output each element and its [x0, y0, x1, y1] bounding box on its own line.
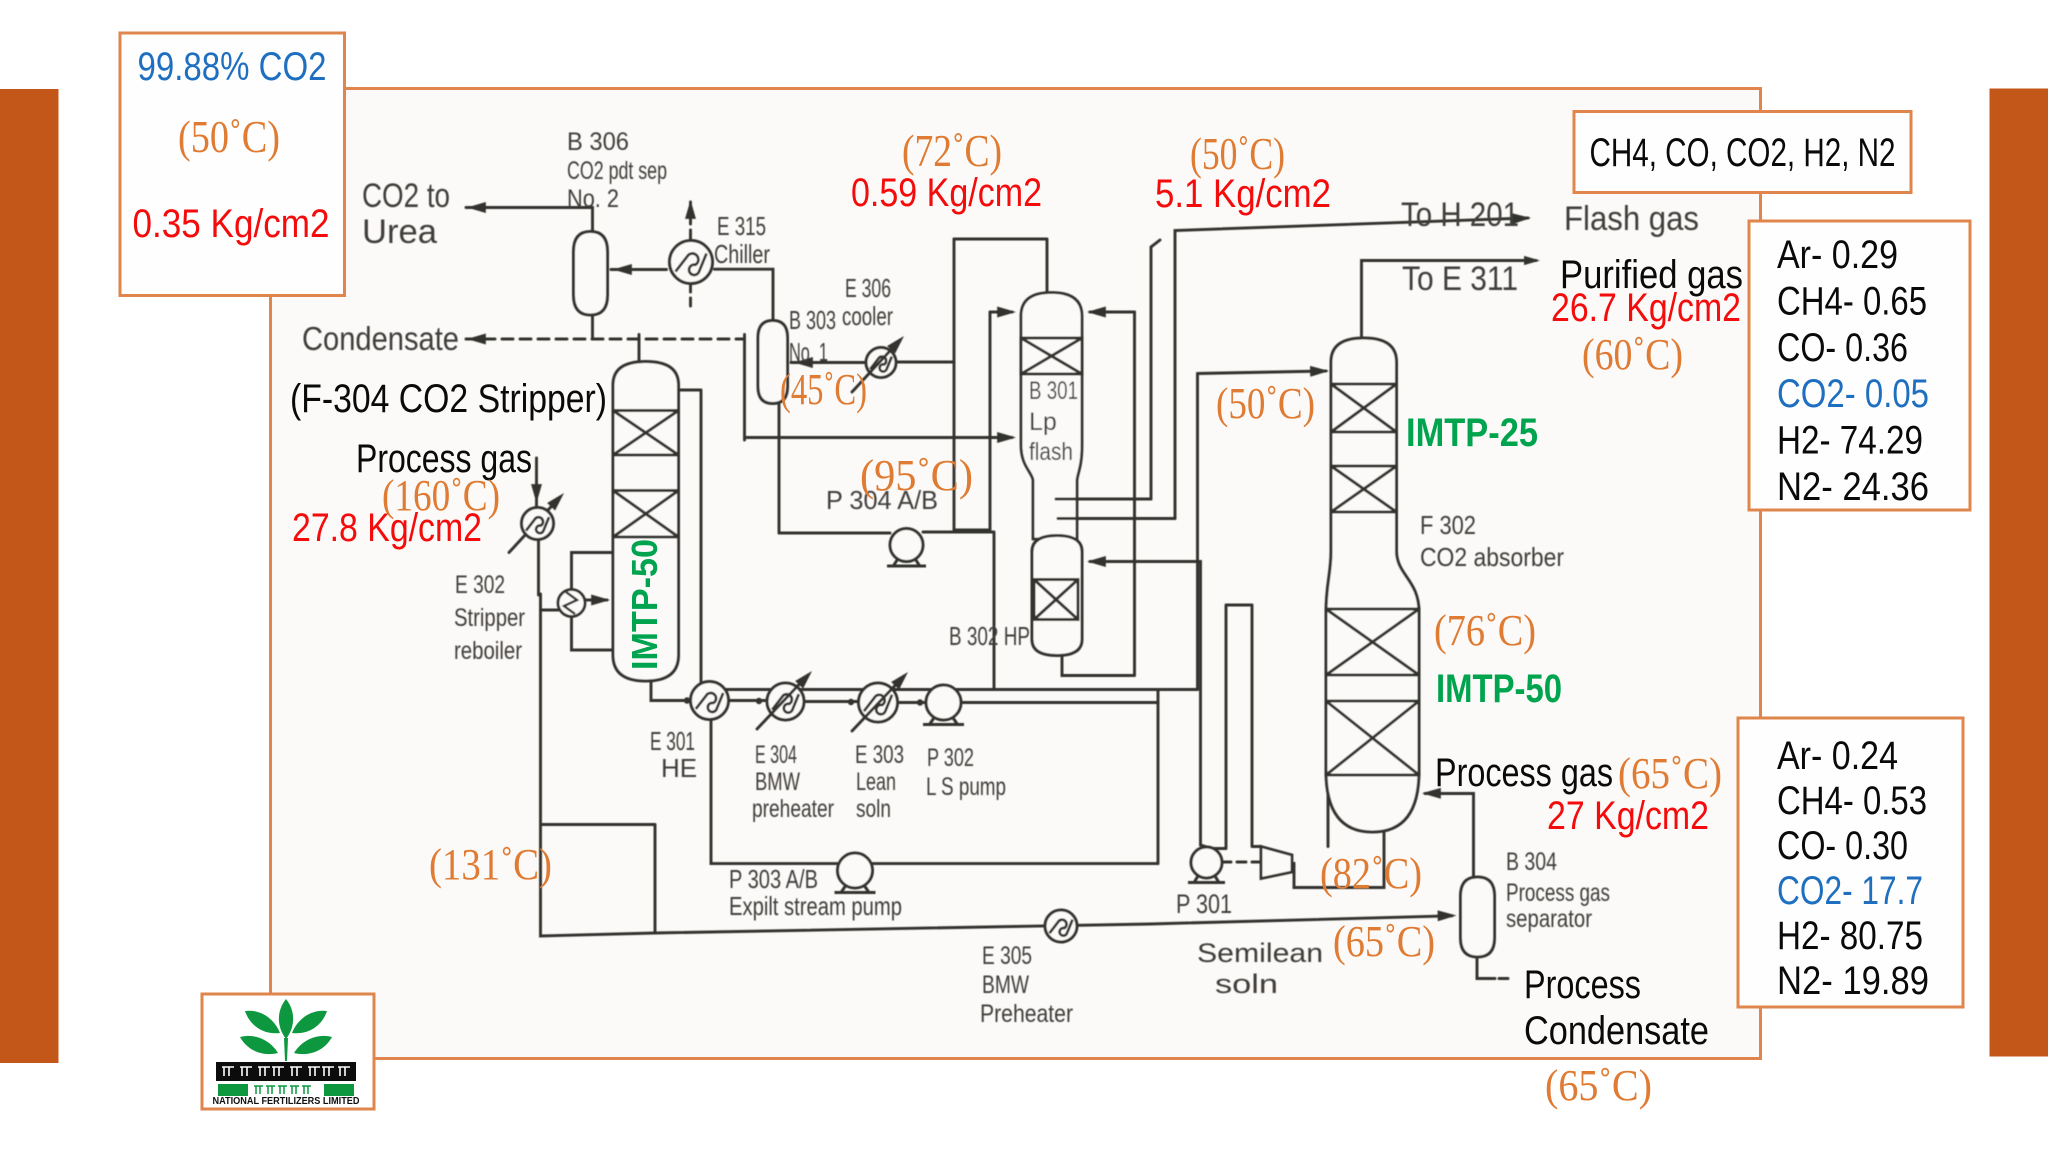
svg-text:No. 2: No. 2 [567, 185, 619, 213]
wire bottom link x990 [954, 312, 990, 530]
vessel B301 Lp flash with neck [1021, 293, 1082, 540]
wire semilean header y689 [701, 688, 1198, 691]
pump P301 semilean [1191, 847, 1222, 878]
svg-text:CO2- 17.7: CO2- 17.7 [1777, 869, 1923, 913]
svg-text:E 302: E 302 [455, 571, 505, 599]
wire into B301 top right [1090, 311, 1135, 314]
wire E315 bottom stub [689, 284, 692, 311]
heat exchanger E306 cooler [866, 348, 896, 378]
packing B301 [1021, 338, 1082, 374]
svg-text:preheater: preheater [752, 795, 834, 823]
wire CO2 to urea line [466, 208, 593, 232]
wire eductor outlet to absorber bottom [1292, 830, 1384, 888]
logo box National Fertilizers Limited [202, 994, 374, 1109]
junction dots [684, 697, 923, 705]
svg-text:E 301: E 301 [650, 726, 695, 756]
packing absorber n1 [1331, 384, 1397, 432]
svg-text:E 304: E 304 [755, 741, 797, 769]
svg-text:B 304: B 304 [1506, 848, 1557, 876]
svg-text:soln: soln [1215, 969, 1278, 999]
wire E302 bottom loop [572, 617, 614, 651]
wire E301 to E304 [729, 699, 767, 702]
svg-text:To E 311: To E 311 [1402, 260, 1518, 298]
wire 131C L-link [541, 825, 655, 934]
wire absorber overhead [1362, 261, 1537, 339]
heat exchanger E304 BMW preheater [767, 683, 804, 720]
svg-text:reboiler: reboiler [454, 637, 522, 665]
packing absorber w1 [1326, 609, 1419, 675]
svg-text:B 303: B 303 [789, 305, 836, 335]
svg-text:CO- 0.30: CO- 0.30 [1777, 824, 1908, 868]
box CH4 list [1574, 112, 1911, 193]
logo leaves [240, 999, 332, 1061]
svg-text:(60˚C): (60˚C) [1582, 330, 1683, 379]
svg-text:N2- 19.89: N2- 19.89 [1777, 959, 1929, 1003]
svg-text:Flash gas: Flash gas [1564, 200, 1699, 238]
wire process gas feed [535, 458, 538, 506]
svg-text:(95˚C): (95˚C) [860, 451, 973, 500]
wire E302 vapor return [585, 599, 607, 602]
eductor funnel [1261, 847, 1292, 879]
svg-text:CO2- 0.05: CO2- 0.05 [1777, 372, 1929, 416]
heat exchanger feed preheat [522, 508, 554, 540]
svg-text:H2- 74.29: H2- 74.29 [1777, 419, 1923, 463]
svg-text:cooler: cooler [842, 301, 893, 331]
wire P301 suction tee [1157, 690, 1160, 863]
wire condensate dashed line [466, 338, 745, 341]
wire flash gas risers [1151, 218, 1528, 519]
vessel B302 HP [1032, 536, 1082, 656]
wire feed HX diagonal [509, 497, 560, 553]
logo green marks row [218, 1084, 248, 1096]
svg-text:Urea: Urea [362, 213, 437, 251]
svg-text:Lean: Lean [856, 768, 896, 796]
svg-text:CO2 to: CO2 to [362, 177, 450, 215]
svg-text:CH4- 0.53: CH4- 0.53 [1777, 779, 1927, 823]
wire B302 bottoms U-loop [1062, 312, 1135, 676]
svg-text:B 301: B 301 [1029, 377, 1078, 405]
wire P304 suction [779, 532, 890, 535]
wire E315 to B303 top [715, 269, 774, 320]
svg-text:Stripper: Stripper [454, 604, 525, 632]
wire E315 to B306 [611, 268, 667, 271]
svg-text:Chiller: Chiller [714, 239, 770, 269]
wire E302 upper loop [572, 553, 614, 590]
wire riser x744 [743, 335, 746, 441]
packing stripper upper [613, 411, 679, 456]
wire E304 diagonal [757, 675, 808, 729]
svg-text:NATIONAL FERTILIZERS LIMITED: NATIONAL FERTILIZERS LIMITED [213, 1095, 360, 1107]
vessel B304 process gas separator [1461, 877, 1495, 957]
svg-text:B 306: B 306 [567, 128, 629, 156]
svg-text:B 302 HP: B 302 HP [949, 621, 1030, 651]
svg-text:(50˚C): (50˚C) [1216, 379, 1315, 428]
wire B302 side feed from downcomer [1090, 562, 1207, 848]
main frame border [271, 89, 1761, 1059]
packing absorber n2 [1331, 466, 1397, 512]
svg-text:CO- 0.36: CO- 0.36 [1777, 326, 1908, 370]
svg-text:(50˚C): (50˚C) [178, 111, 280, 162]
vessel B303 No.1 [758, 321, 788, 404]
scan paper background [272, 90, 1759, 1057]
svg-text:(76˚C): (76˚C) [1434, 606, 1536, 655]
wire 50C line into absorber [1198, 371, 1327, 374]
svg-text:Ar- 0.24: Ar- 0.24 [1777, 734, 1898, 778]
packing B302 [1034, 580, 1078, 620]
svg-text:CH4, CO, CO2, H2, N2: CH4, CO, CO2, H2, N2 [1590, 131, 1896, 175]
svg-text:CH4- 0.65: CH4- 0.65 [1777, 279, 1927, 323]
svg-text:Preheater: Preheater [980, 1000, 1073, 1028]
svg-text:N2- 24.36: N2- 24.36 [1777, 465, 1929, 509]
svg-text:separator: separator [1506, 905, 1592, 933]
wire B306 condensate drop [591, 315, 594, 339]
wire E302 left stub [541, 609, 559, 612]
wire B301 flash outlets [1056, 499, 1175, 519]
wire P303 discharge [873, 862, 1159, 865]
svg-text:CO2 pdt sep: CO2 pdt sep [567, 157, 667, 185]
svg-text:E 315: E 315 [717, 211, 766, 241]
svg-text:0.59 Kg/cm2: 0.59 Kg/cm2 [851, 171, 1042, 215]
packing stripper lower [613, 491, 679, 538]
heat exchanger E301 HE [691, 682, 729, 720]
wire B303 bottoms [778, 404, 781, 534]
svg-text:(72˚C): (72˚C) [902, 125, 1002, 176]
svg-text:(F-304 CO2 Stripper): (F-304 CO2 Stripper) [290, 377, 607, 421]
svg-text:(65˚C): (65˚C) [1618, 749, 1722, 798]
svg-text:Ar- 0.29: Ar- 0.29 [1777, 233, 1898, 277]
box purified gas composition [1749, 221, 1970, 510]
wire E301 to P303 [711, 720, 837, 864]
svg-text:Process gas: Process gas [1435, 751, 1613, 795]
wire B304 bottoms [1477, 957, 1508, 979]
svg-text:(45˚C): (45˚C) [780, 365, 867, 414]
heat exchanger E302 reboiler [558, 590, 585, 617]
wire stripper overhead [638, 335, 641, 362]
svg-text:Lp: Lp [1029, 408, 1057, 436]
svg-text:Condensate: Condensate [1524, 1009, 1709, 1053]
svg-text:Expilt stream pump: Expilt stream pump [729, 891, 902, 921]
wire stripper bottoms to E301 [651, 681, 690, 701]
column F302 CO2 absorber [1326, 338, 1419, 832]
svg-text:IMTP-50: IMTP-50 [1436, 667, 1562, 711]
svg-text:H2- 80.75: H2- 80.75 [1777, 914, 1923, 958]
svg-text:5.1 Kg/cm2: 5.1 Kg/cm2 [1155, 172, 1331, 216]
wire E306 diagonal [852, 340, 900, 392]
svg-text:flash: flash [1029, 438, 1073, 466]
svg-text:soln: soln [856, 795, 891, 823]
box top-left CO2 composition [120, 33, 345, 296]
wire P302 discharge [962, 701, 1159, 704]
svg-text:IMTP-25: IMTP-25 [1406, 411, 1538, 455]
wire E303 diagonal [852, 676, 904, 731]
wire riser x954 [953, 239, 956, 530]
wire E315 top vent [689, 202, 692, 240]
svg-text:IMTP-50: IMTP-50 [624, 539, 665, 670]
wire B301 flash outlet stubs overlay [1056, 499, 1077, 519]
svg-text:L S pump: L S pump [926, 773, 1006, 801]
svg-text:E 306: E 306 [845, 273, 891, 303]
column F304 CO2 stripper [613, 362, 679, 682]
svg-text:(65˚C): (65˚C) [1545, 1061, 1652, 1110]
left orange sidebar [0, 89, 59, 1063]
heat exchanger E303 lean soln [859, 683, 898, 722]
right orange sidebar [1990, 89, 2048, 1057]
svg-text:F 302: F 302 [1420, 510, 1476, 540]
vessel B306 CO2 pdt sep No.2 [574, 232, 608, 316]
wire 95C feed to B301 [745, 436, 1013, 439]
svg-text:Process: Process [1524, 963, 1641, 1007]
wire top link to B301 [954, 239, 1047, 292]
wire stripper overhead parallel line [671, 390, 701, 690]
wire P301 discharge dashed [1222, 861, 1259, 864]
heat exchanger E315 chiller [670, 241, 713, 284]
svg-text:P 303 A/B: P 303 A/B [729, 864, 818, 894]
svg-text:Semilean: Semilean [1197, 938, 1323, 968]
logo hindi bar [216, 1062, 356, 1081]
svg-text:99.88% CO2: 99.88% CO2 [138, 45, 327, 89]
svg-text:(131˚C): (131˚C) [429, 840, 552, 889]
svg-text:27 Kg/cm2: 27 Kg/cm2 [1547, 794, 1709, 838]
wire B304 overhead to absorber [1425, 794, 1474, 878]
svg-text:26.7 Kg/cm2: 26.7 Kg/cm2 [1551, 286, 1741, 330]
svg-text:E 303: E 303 [855, 741, 904, 769]
svg-text:No. 1: No. 1 [789, 337, 828, 367]
wire semilean U downcomers [1207, 605, 1261, 849]
svg-text:(82˚C): (82˚C) [1320, 849, 1422, 898]
svg-text:Condensate: Condensate [302, 320, 459, 357]
wire E304 to E303 [805, 700, 859, 703]
svg-text:(65˚C): (65˚C) [1333, 917, 1435, 966]
wire E306 to riser [896, 361, 954, 364]
wire eductor top to absorber [1327, 790, 1330, 847]
svg-text:P 302: P 302 [927, 744, 974, 772]
wire B303 to E306 [791, 361, 866, 364]
svg-text:E 305: E 305 [982, 942, 1032, 970]
svg-text:0.35 Kg/cm2: 0.35 Kg/cm2 [133, 202, 330, 246]
pump P304 A/B [890, 529, 923, 562]
svg-text:BMW: BMW [982, 971, 1029, 999]
heat exchanger E305 BMW preheater [1045, 910, 1077, 942]
wire riser B [1196, 374, 1199, 690]
svg-text:CO2 absorber: CO2 absorber [1420, 542, 1564, 572]
pump P302 LS pump [926, 685, 961, 720]
svg-text:To H 201: To H 201 [1401, 196, 1519, 234]
box process gas composition [1738, 718, 1963, 1007]
packing absorber w2 [1326, 701, 1419, 775]
svg-text:BMW: BMW [755, 768, 800, 796]
wire E303 to P302 [898, 701, 926, 704]
wire P304 discharge [923, 532, 994, 690]
pump P303 A/B [838, 853, 873, 888]
wire 131C bottom long line [541, 594, 1453, 936]
svg-text:Process gas: Process gas [1506, 879, 1610, 907]
svg-text:P 301: P 301 [1176, 889, 1232, 919]
svg-text:HE: HE [661, 753, 697, 783]
wire into B301 top left [990, 311, 1012, 314]
svg-text:27.8 Kg/cm2: 27.8 Kg/cm2 [292, 506, 482, 550]
